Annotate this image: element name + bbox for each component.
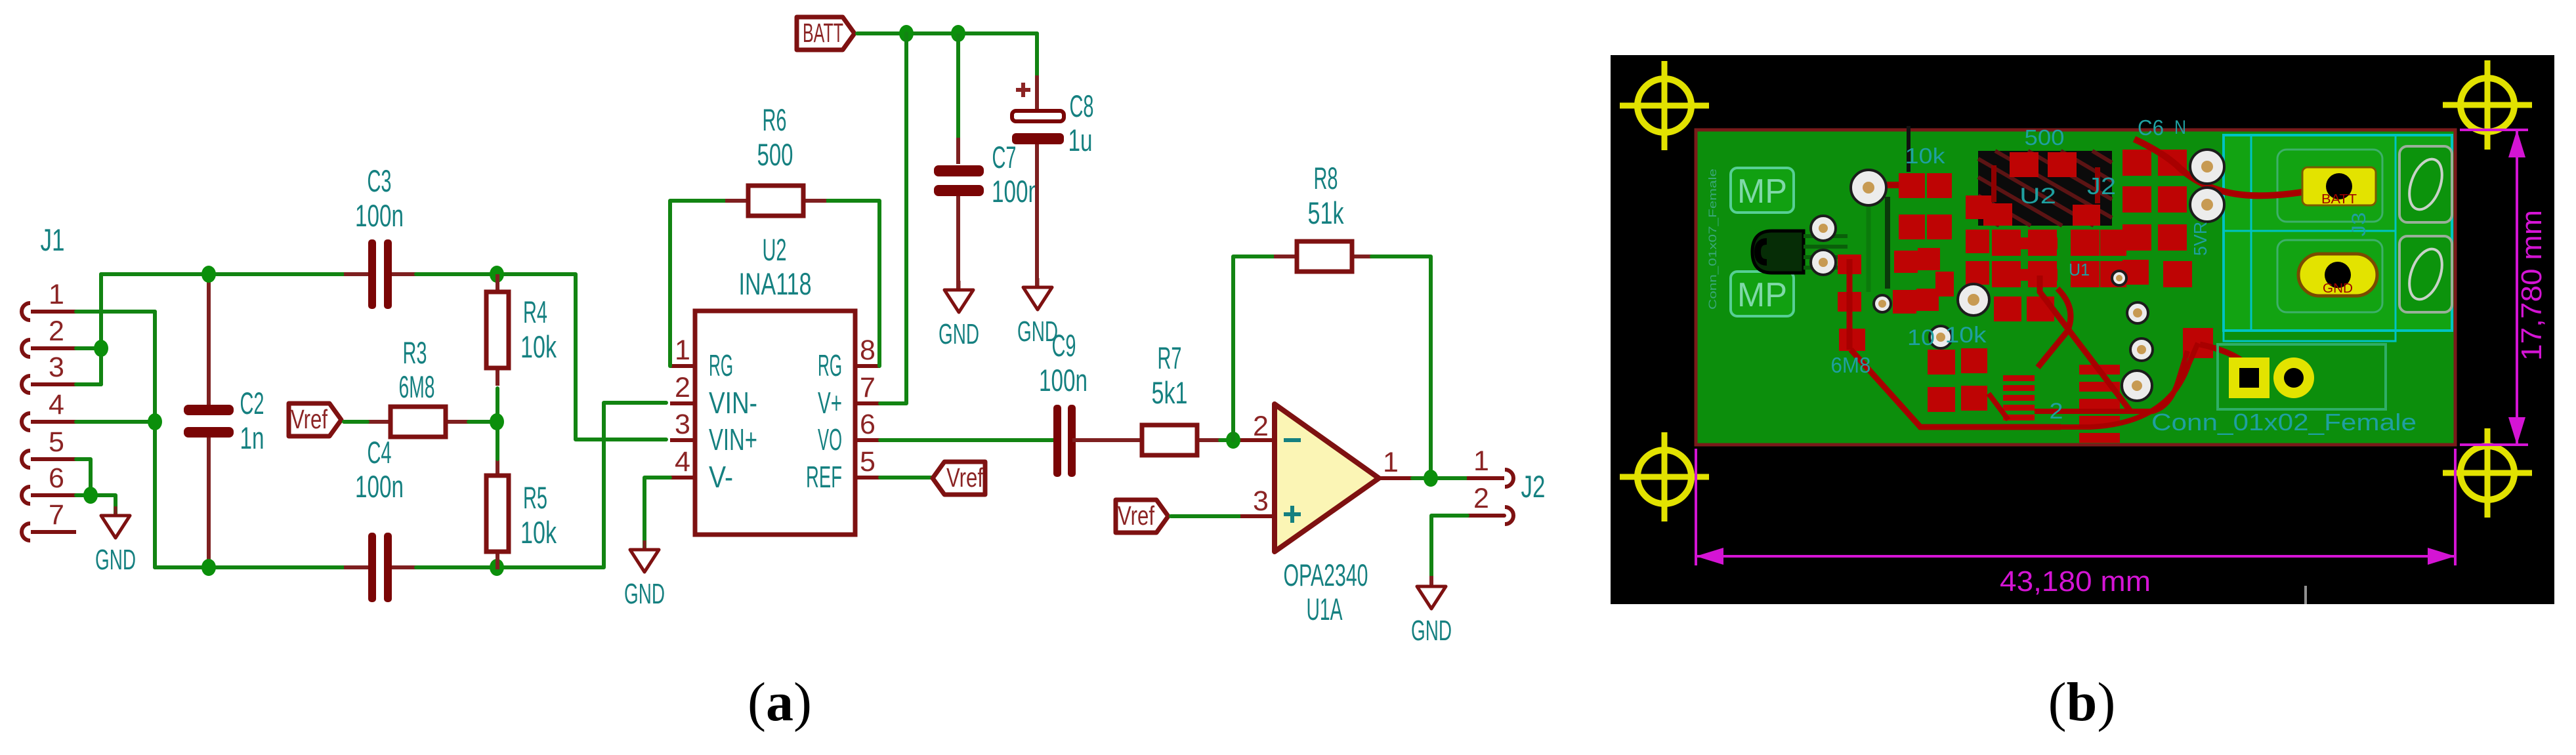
wire R3 to node <box>469 420 497 424</box>
PCB via 5 <box>2190 188 2224 222</box>
svg-text:C4: C4 <box>368 435 392 470</box>
svg-text:7: 7 <box>49 499 64 531</box>
U2 pin 6 VO <box>818 409 880 457</box>
svg-text:100n: 100n <box>355 469 404 504</box>
junction BATT-C7 node <box>951 25 965 42</box>
svg-text:3: 3 <box>49 352 64 383</box>
wire R8 to output node <box>1372 256 1431 478</box>
U2 pin 4 V- <box>670 446 733 494</box>
resistor R4 <box>486 274 509 386</box>
PCB via 1 <box>1851 170 1886 205</box>
U2 pin 1 RG <box>670 335 733 382</box>
wire J1.4 right <box>76 420 155 424</box>
capacitor C2 <box>184 385 234 457</box>
ground GND at J1 pin 6 <box>95 506 136 576</box>
PCB board outline (Edge.Cuts) <box>1696 130 2455 445</box>
wire C7 top lead <box>956 33 960 141</box>
connector pin J1 pin 1 <box>22 279 76 320</box>
svg-text:Conn_01x07_Female: Conn_01x07_Female <box>1706 169 1719 310</box>
wire Vref flag to R3 <box>344 420 368 424</box>
capacitor C8 (polarized) <box>1012 75 1064 287</box>
svg-text:500: 500 <box>757 137 793 172</box>
PCB connector J1 body <box>1752 231 1848 273</box>
connector pin J1 pin 7 <box>22 499 76 541</box>
connector pin J2 pin 2 <box>1467 483 1513 524</box>
wire J1.1 right <box>76 310 155 314</box>
svg-text:Conn_01x02_Female: Conn_01x02_Female <box>2151 409 2417 436</box>
wire bottom rail left of C4 <box>155 565 347 569</box>
svg-text:10k: 10k <box>520 329 557 364</box>
svg-text:1n: 1n <box>240 420 264 455</box>
svg-text:R3: R3 <box>403 335 427 370</box>
junction J1 pin6 <box>83 487 98 504</box>
svg-text:C9: C9 <box>1052 328 1076 363</box>
svg-text:1: 1 <box>1383 447 1399 478</box>
PCB fiducial top-left <box>1620 61 1709 150</box>
svg-text:J2: J2 <box>2087 173 2116 199</box>
svg-text:R6: R6 <box>763 102 787 137</box>
svg-text:5: 5 <box>860 446 876 478</box>
svg-text:2: 2 <box>2050 399 2063 424</box>
PCB trace inside U2 left <box>1991 165 1996 202</box>
PCB panel (b) background <box>1611 55 2554 604</box>
junction R3/R4/R5 node <box>490 413 504 430</box>
svg-text:8: 8 <box>860 335 876 366</box>
net flag Vref at R3 <box>289 403 341 436</box>
PCB trace inside U2 right <box>2095 167 2100 203</box>
wire R6 to U2 pin8 <box>826 201 879 366</box>
PCB dark slot left <box>1885 197 1890 289</box>
connector pin J1 pin 5 <box>22 426 76 468</box>
PCB trace ribbon to J2 area (outer) <box>2061 343 2198 427</box>
PCB via 6 <box>1958 284 1989 316</box>
PCB trace left column vertical <box>1847 259 1853 350</box>
svg-text:2: 2 <box>675 372 690 403</box>
wire bottom rail C4 to R5 <box>416 565 497 569</box>
PCB trace via to bottom cluster <box>1989 394 2008 420</box>
wire U2 pin1 to R6 <box>670 201 726 366</box>
svg-text:N: N <box>2174 117 2186 138</box>
connector pin J1 pin 3 <box>22 352 76 393</box>
svg-text:6M8: 6M8 <box>399 369 435 404</box>
svg-text:1u: 1u <box>1068 123 1093 157</box>
PCB mounting pad label MP2 <box>1731 272 1794 316</box>
svg-text:C7: C7 <box>992 140 1017 174</box>
svg-text:51k: 51k <box>1308 195 1344 230</box>
junction C2 top on rail <box>201 266 216 283</box>
net flag Vref at U1A in+ <box>1116 500 1168 533</box>
wire C9 to R7 <box>1072 438 1124 442</box>
PCB via 11 <box>2130 338 2153 361</box>
U1A pin 3 stub <box>1240 514 1275 518</box>
wire J1.5 to pin6 <box>76 459 91 495</box>
svg-text:100n: 100n <box>992 174 1040 209</box>
PCB IC U2 body <box>1978 151 2112 226</box>
PCB IC footprint pads (fine pitch, right) <box>2079 365 2120 443</box>
resistor R3 <box>368 407 469 437</box>
wire BATT to U2 V+ <box>880 33 906 403</box>
svg-text:Vref: Vref <box>1118 500 1154 531</box>
PCB screw terminal 2 <box>2399 236 2452 312</box>
svg-text:100n: 100n <box>1039 363 1087 398</box>
wire vertical x236 pin1-bottom rail <box>153 312 157 567</box>
svg-text:U1: U1 <box>2069 260 2090 279</box>
svg-text:U2: U2 <box>763 232 787 267</box>
junction BATT-V+ node <box>899 25 914 42</box>
svg-text:Vref: Vref <box>291 404 327 434</box>
svg-text:10: 10 <box>1907 325 1935 350</box>
svg-text:3: 3 <box>1253 485 1269 517</box>
svg-text:VIN+: VIN+ <box>709 422 757 457</box>
PCB via 12 <box>2122 371 2152 401</box>
PCB fiducial bottom-left <box>1620 432 1709 521</box>
svg-text:J3: J3 <box>2348 213 2370 237</box>
svg-text:C2: C2 <box>240 386 264 420</box>
wire top rail C3 to R4 <box>416 272 497 276</box>
svg-text:2: 2 <box>1253 411 1269 442</box>
wire U2 pin4 to gnd <box>644 478 670 550</box>
PCB battery holder inner lines <box>2224 135 2396 341</box>
PCB via 2 <box>1811 216 1836 241</box>
PCB via 8 <box>1930 326 1952 348</box>
wire Vref to op-amp in+ <box>1171 514 1247 518</box>
PCB pad BATT (yellow) <box>2302 167 2376 207</box>
PCB green trace below big via <box>1867 207 1871 292</box>
ground GND at C8 <box>1017 278 1058 348</box>
wire vertical x154 <box>99 274 103 384</box>
svg-text:MP: MP <box>1737 173 1787 211</box>
PCB screw terminal 1 <box>2399 146 2452 222</box>
svg-text:C8: C8 <box>1070 89 1094 123</box>
svg-text:J1: J1 <box>41 222 65 257</box>
PCB via 10 <box>2127 302 2148 323</box>
svg-text:R7: R7 <box>1158 340 1182 375</box>
PCB fiducial bottom-right <box>2443 428 2532 518</box>
resistor R7 <box>1119 425 1220 455</box>
svg-text:R8: R8 <box>1314 161 1338 195</box>
svg-text:V-: V- <box>709 460 733 494</box>
ground GND at U2 V- <box>624 541 665 610</box>
svg-text:VO: VO <box>818 422 842 457</box>
junction C2 bottom on rail <box>201 559 216 576</box>
wire top rail left of C3 <box>101 272 347 276</box>
PCB silk outline GND pad <box>2277 240 2382 312</box>
PCB trace ribbon to J2 area (inner) <box>2035 351 2187 411</box>
resistor R8 <box>1274 241 1375 272</box>
svg-text:R5: R5 <box>523 480 547 515</box>
junction R5 bottom <box>490 559 504 576</box>
PCB trace via pad link top <box>1876 182 1899 188</box>
capacitor C9 <box>1053 405 1076 477</box>
U1A pin 2 stub <box>1240 438 1275 442</box>
PCB trace center S <box>2038 289 2071 367</box>
svg-text:6: 6 <box>49 462 64 494</box>
PCB cursor tick <box>2304 586 2307 604</box>
svg-text:RG: RG <box>818 348 842 382</box>
PCB pad GND (yellow) <box>2298 254 2377 296</box>
svg-text:1: 1 <box>49 279 64 310</box>
PCB fiducial top-right <box>2443 60 2532 150</box>
wire R7 to op-amp in- <box>1220 438 1247 442</box>
svg-text:5k1: 5k1 <box>1152 375 1188 410</box>
wire top node to U2 VIN+ <box>497 274 666 439</box>
svg-text:OPA2340: OPA2340 <box>1284 558 1368 592</box>
svg-text:6M8: 6M8 <box>1831 353 1871 377</box>
svg-text:7: 7 <box>860 372 876 403</box>
svg-text:500: 500 <box>2025 125 2065 150</box>
PCB dimension width 43.180 mm <box>1696 449 2455 565</box>
svg-text:100n: 100n <box>355 198 404 233</box>
wire bottom node to U2 VIN- <box>497 403 666 567</box>
wire J2 gnd lead <box>1429 576 1433 586</box>
PCB trace to BATT pad <box>2134 139 2327 195</box>
svg-text:10k: 10k <box>1905 144 1946 168</box>
svg-text:GND: GND <box>624 578 665 610</box>
svg-text:BATT: BATT <box>2321 192 2357 207</box>
junction R4 top <box>490 266 504 283</box>
ground GND at C7 <box>939 281 979 350</box>
svg-text:(b): (b) <box>2048 672 2116 733</box>
wire J1.3 right <box>76 382 101 386</box>
svg-text:R4: R4 <box>523 295 547 329</box>
U2 pin 8 RG <box>818 335 880 382</box>
junction R7/R8/in- node <box>1226 432 1240 449</box>
wire J2 pin2 stub <box>1467 514 1504 518</box>
U2 pin 2 VIN- <box>670 372 757 420</box>
svg-text:J2: J2 <box>1521 469 1546 504</box>
PCB silk outline J2 <box>2218 344 2386 409</box>
connector pin J2 pin 1 <box>1467 445 1513 487</box>
capacitor C3 <box>344 239 416 309</box>
U2 pin 3 VIN+ <box>670 409 757 457</box>
svg-text:BATT: BATT <box>803 18 843 48</box>
svg-text:5: 5 <box>49 426 64 458</box>
svg-text:RG: RG <box>709 348 733 382</box>
capacitor C7 <box>934 138 984 290</box>
svg-text:INA118: INA118 <box>739 266 812 301</box>
ground GND at J2 pin 2 <box>1411 577 1452 647</box>
wire node to R5 top <box>496 422 499 459</box>
svg-text:C3: C3 <box>368 163 392 198</box>
PCB pad J2-2 (yellow circle) <box>2273 357 2314 398</box>
svg-text:REF: REF <box>806 460 842 494</box>
PCB trace diagonal center <box>2040 275 2131 412</box>
wire BATT rail <box>857 31 1037 35</box>
svg-text:6: 6 <box>860 409 876 440</box>
PCB via 4 <box>2190 150 2224 184</box>
svg-text:(a): (a) <box>748 672 812 733</box>
connector pin J1 pin 6 <box>22 462 76 504</box>
svg-text:GND: GND <box>95 544 136 576</box>
wire U2 VO to C9 <box>880 438 1057 442</box>
wire C2 top lead <box>207 274 211 394</box>
svg-text:C6: C6 <box>2138 115 2164 140</box>
resistor R5 <box>486 458 509 569</box>
svg-text:17,780 mm: 17,780 mm <box>2516 210 2548 361</box>
svg-text:MP: MP <box>1737 276 1787 314</box>
svg-text:4: 4 <box>49 389 64 420</box>
svg-text:1: 1 <box>1473 445 1489 477</box>
U1A output stub <box>1379 476 1412 480</box>
wire output to J2.1 <box>1412 476 1467 480</box>
PCB dimension height 17.780 mm <box>2460 130 2528 445</box>
svg-text:2: 2 <box>49 316 64 347</box>
svg-text:U1A: U1A <box>1307 592 1343 626</box>
PCB trace loop bottom left <box>1851 350 2061 427</box>
PCB pad J2-1 (yellow square) <box>2229 357 2270 398</box>
svg-text:V+: V+ <box>818 386 842 420</box>
connector pin J1 pin 2 <box>22 316 76 357</box>
wire R4 bottom to node <box>496 388 499 422</box>
svg-text:2: 2 <box>1473 483 1489 514</box>
svg-text:43,180 mm: 43,180 mm <box>2000 565 2151 598</box>
capacitor C4 <box>344 533 416 602</box>
PCB via 7 <box>1874 295 1891 312</box>
PCB trace pad to J2 square pad <box>2200 344 2247 365</box>
net flag Vref at U2 REF <box>933 462 985 495</box>
PCB silk outline BATT pad <box>2277 150 2382 222</box>
PCB via 9 <box>2112 271 2126 285</box>
wire J1.2 right <box>76 346 101 350</box>
PCB mounting pad label MP1 <box>1731 168 1794 213</box>
svg-text:U2: U2 <box>2019 184 2056 209</box>
svg-text:4: 4 <box>675 446 690 478</box>
wire BATT rail to C8 <box>1035 33 1039 79</box>
svg-text:3: 3 <box>675 409 690 440</box>
junction J1 pin2 <box>94 340 108 357</box>
schematic panel (a) <box>0 0 1611 755</box>
net flag BATT <box>797 17 855 50</box>
U2 pin 5 REF <box>806 446 880 494</box>
svg-text:5VR: 5VR <box>2190 222 2210 256</box>
svg-text:GND: GND <box>939 318 979 350</box>
svg-text:GND: GND <box>1411 615 1452 647</box>
svg-text:GND: GND <box>2323 281 2353 296</box>
svg-text:10k: 10k <box>520 515 557 550</box>
PCB battery holder courtyard <box>2224 135 2452 331</box>
PCB dark slot top <box>1907 126 1911 172</box>
wire in- node up to R8 <box>1233 256 1280 440</box>
U2 pin 7 V+ <box>818 372 880 420</box>
svg-text:1: 1 <box>675 335 690 366</box>
wire J2 pin1 stub <box>1467 476 1504 480</box>
wire U2 REF to Vref flag <box>880 476 935 480</box>
PCB via 3 <box>1811 250 1836 275</box>
junction J1 pin4 <box>148 413 162 430</box>
junction output node <box>1424 470 1438 487</box>
op-amp U2 INA118 body <box>695 311 855 535</box>
wire J2.2 to gnd <box>1431 516 1467 576</box>
PCB SMD pads cluster <box>1838 150 2213 412</box>
svg-text:Vref: Vref <box>946 462 983 493</box>
resistor R6 <box>725 186 826 216</box>
wire C2 bottom lead <box>207 449 211 567</box>
svg-text:VIN-: VIN- <box>709 386 757 420</box>
svg-text:10k: 10k <box>1945 323 1987 348</box>
connector pin J1 pin 4 <box>22 389 76 430</box>
wire J1.6 to gnd <box>76 495 116 516</box>
PCB IC footprint pads (fine pitch, left) <box>2003 375 2035 420</box>
op-amp U1A OPA2340 <box>1275 404 1379 552</box>
